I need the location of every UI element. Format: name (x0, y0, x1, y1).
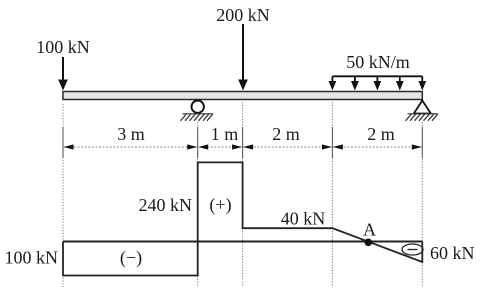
circled minus at right (402, 244, 423, 255)
dimension tick at x=422.3 (421, 127, 423, 158)
force arrow 200 kN (238, 24, 248, 91)
guide line at x=332.4 (6m) (331, 102, 333, 287)
svg-text:60 kN: 60 kN (430, 243, 475, 263)
svg-text:1 m: 1 m (211, 124, 239, 144)
svg-text:100 kN: 100 kN (36, 37, 90, 57)
guide line at x=197.7 (roller, 3m) (197, 122, 199, 287)
distributed load 50 kN/m (329, 76, 427, 90)
svg-text:2 m: 2 m (272, 124, 300, 144)
dimension arrowheads (64, 144, 422, 149)
svg-text:2 m: 2 m (367, 124, 395, 144)
dimension tick at x=242.6 (242, 127, 244, 158)
svg-text:50 kN/m: 50 kN/m (346, 52, 410, 72)
roller support (192, 101, 204, 113)
dimension line (63, 146, 422, 148)
svg-text:100 kN: 100 kN (5, 248, 59, 268)
point A dot (365, 239, 373, 247)
dimension tick at x=332.4 (331, 127, 333, 158)
force arrow 100 kN (58, 57, 68, 91)
svg-text:240 kN: 240 kN (139, 195, 193, 215)
shear diagram outline (63, 162, 422, 275)
dimension tick at x=197.7 (197, 127, 199, 158)
guide line at x=242.6 (4m) (242, 102, 244, 287)
shear zero baseline (63, 241, 422, 243)
svg-text:A: A (363, 220, 376, 240)
guide line at x=63 (left end) (62, 104, 64, 287)
svg-text:200 kN: 200 kN (216, 5, 270, 25)
roller ground hatching (181, 114, 214, 121)
dimension tick at x=63 (62, 127, 64, 158)
svg-text:40 kN: 40 kN (281, 209, 326, 229)
svg-text:(+): (+) (209, 195, 231, 216)
svg-text:3 m: 3 m (117, 124, 145, 144)
guide line at x=422.3 (right end, 8m) (421, 122, 423, 287)
pin support (414, 101, 431, 114)
pin ground hatching (406, 114, 439, 121)
svg-text:(−): (−) (120, 248, 142, 269)
beam (63, 92, 422, 100)
